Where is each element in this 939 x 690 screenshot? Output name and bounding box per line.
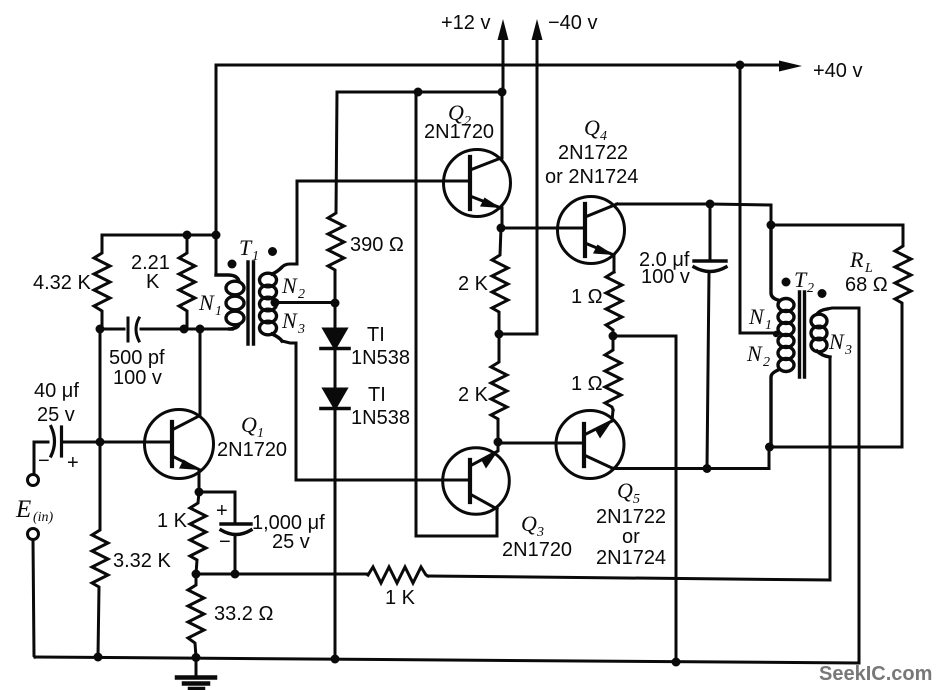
diode D2 TI 1N538 — [321, 389, 349, 659]
svg-text:1N538: 1N538 — [351, 347, 410, 369]
T2 core — [800, 292, 805, 377]
resistor 4.32 K — [94, 235, 110, 329]
node emitter resistor bottom — [192, 570, 201, 579]
svg-text:100 v: 100 v — [641, 266, 690, 288]
capacitor 500 pf — [128, 318, 139, 341]
wire rail left drop to resistor top line — [215, 65, 218, 275]
wire feedback line to 1K — [196, 573, 368, 576]
svg-text:(in): (in) — [33, 510, 54, 525]
wire 390 ohm top run y92 — [337, 91, 502, 94]
wire -40v to 2K junction — [499, 333, 537, 336]
node +40v rail junction — [736, 61, 745, 70]
label N1 — [198, 290, 222, 319]
svg-text:2N1720: 2N1720 — [424, 121, 494, 143]
wire Q5 emitter run — [612, 447, 769, 469]
power arrow -40v — [532, 19, 543, 334]
wire T1 N1 top lead — [216, 275, 239, 281]
wire Q2 emitter down — [501, 208, 502, 228]
T2 phase dot left — [782, 278, 791, 287]
svg-text:or: or — [622, 526, 640, 548]
T1 core — [248, 262, 254, 344]
node Q1 emitter / 1000uf — [195, 488, 204, 497]
label RL — [849, 247, 873, 276]
wire top resistor pair line y235 — [102, 234, 216, 237]
svg-text:1 Ω: 1 Ω — [571, 286, 603, 308]
svg-text:3.32 K: 3.32 K — [113, 550, 171, 572]
label Q3 — [521, 511, 544, 540]
wire Q2 emitter to Q4 base — [501, 227, 585, 230]
wire Q4 emitter down — [613, 255, 616, 272]
wire T1 N1 bottom lead — [228, 325, 239, 329]
node 1 ohm junction — [609, 332, 618, 341]
terminal Ein bottom — [28, 529, 39, 540]
svg-text:TI: TI — [368, 384, 386, 406]
power arrow +40v — [740, 61, 802, 72]
wire Q1 emitter down — [199, 470, 200, 492]
svg-text:2 K: 2 K — [458, 384, 489, 406]
wire RL bottom to T2 node — [770, 446, 903, 449]
svg-text:N: N — [281, 273, 298, 298]
svg-text:40 μf: 40 μf — [34, 380, 79, 402]
node T2 bottom / RL bottom — [765, 443, 774, 452]
svg-text:2N1722: 2N1722 — [558, 142, 628, 164]
svg-text:2N1720: 2N1720 — [217, 439, 287, 461]
svg-text:2N1722: 2N1722 — [596, 506, 666, 528]
node Q3 collector / Q5 base — [494, 438, 503, 447]
wire T1 N2 top to Q2 base — [281, 181, 470, 268]
resistor 2K lower — [491, 334, 507, 442]
svg-text:+: + — [67, 452, 79, 474]
svg-text:5: 5 — [633, 492, 640, 507]
label N1 (T2) — [748, 304, 772, 333]
winding T2 N3 — [817, 309, 827, 314]
svg-text:68 Ω: 68 Ω — [845, 274, 888, 296]
svg-text:390 Ω: 390 Ω — [350, 234, 404, 256]
svg-text:E: E — [15, 496, 31, 523]
label N2 (T2) — [746, 341, 770, 370]
label T2 — [794, 267, 814, 296]
node 1000uf bottom — [231, 570, 240, 579]
wire bottom RC line y329 right — [141, 328, 232, 331]
svg-text:N: N — [828, 329, 845, 354]
label Ein — [15, 496, 54, 525]
T1 phase dot right — [268, 247, 277, 256]
node y92 Q3 drop — [414, 88, 423, 97]
svg-text:−: − — [219, 531, 231, 553]
svg-text:N: N — [198, 290, 215, 315]
svg-text:+: + — [216, 500, 228, 522]
node Q1 collector junction — [196, 325, 205, 334]
wire x100 vertical RC bottom to base node — [99, 329, 102, 442]
label Q1 — [241, 412, 264, 441]
svg-text:N: N — [746, 341, 763, 366]
winding N3 — [260, 309, 277, 323]
svg-text:33.2 Ω: 33.2 Ω — [214, 603, 273, 625]
resistor 2.21 K — [179, 235, 195, 329]
label Q5 — [617, 478, 640, 507]
svg-text:3: 3 — [536, 525, 544, 540]
capacitor 2.0 uf — [694, 204, 726, 469]
svg-text:1: 1 — [765, 318, 772, 333]
wire Q3 lower lead to y92 node — [416, 92, 497, 536]
node top line / T1 branch — [212, 231, 221, 240]
wire T1 N3 bottom to Q3 base — [282, 341, 470, 480]
wire T2 primary top lead — [771, 225, 778, 300]
wire T2 N3 top to ground rail — [827, 308, 859, 663]
wire emitter node to 1000uf top — [199, 492, 235, 524]
power arrow +12v — [498, 19, 509, 92]
node T1 center tap — [271, 298, 280, 307]
svg-text:TI: TI — [367, 324, 385, 346]
capacitor 40 uf — [34, 427, 100, 473]
svg-text:K: K — [146, 271, 160, 293]
node 2.0uf bottom on emitter run — [703, 464, 712, 473]
svg-text:−40 v: −40 v — [548, 12, 597, 34]
node RC bottom left — [96, 325, 105, 334]
label T1 — [239, 235, 259, 264]
svg-text:500 pf: 500 pf — [109, 347, 165, 369]
svg-text:+40 v: +40 v — [813, 60, 862, 82]
svg-text:or 2N1724: or 2N1724 — [545, 166, 638, 188]
wire bottom RC line y329 left — [100, 328, 124, 331]
svg-text:25 v: 25 v — [272, 531, 310, 553]
resistor 3.32 K — [92, 442, 108, 656]
wire T2 primary bottom lead — [771, 370, 778, 447]
wire RL top — [771, 224, 903, 227]
svg-text:3: 3 — [297, 322, 305, 337]
svg-text:1: 1 — [252, 249, 259, 264]
svg-text:2 K: 2 K — [458, 273, 489, 295]
svg-text:2: 2 — [298, 287, 305, 302]
node Q2 emitter / Q4 base — [497, 224, 506, 233]
node y92 Q2 collector — [498, 88, 507, 97]
node rail 33.2 ohm — [192, 653, 201, 662]
capacitor 1000 uf — [221, 524, 251, 574]
svg-text:T: T — [239, 235, 253, 260]
resistor 1 ohm lower — [605, 336, 621, 410]
node 2.21K bottom — [180, 325, 189, 334]
svg-text:−: − — [38, 450, 50, 472]
terminal Ein top — [28, 475, 39, 486]
node 390 ohm bottom diode top — [331, 299, 340, 308]
transformer T1 — [216, 262, 282, 344]
svg-text:N: N — [281, 308, 298, 333]
resistor 1 K (emitter) — [190, 492, 206, 574]
node rail 3.32K — [94, 653, 103, 662]
wire Ein bottom to ground rail — [33, 540, 35, 657]
wire Q2 collector up — [501, 92, 502, 158]
wire Q5 base from node — [498, 442, 584, 443]
svg-text:N: N — [748, 304, 765, 329]
wire +40v drop to T2 center tap — [740, 65, 779, 333]
svg-text:1 K: 1 K — [385, 587, 416, 609]
resistor 1 K (feedback) — [368, 567, 428, 583]
node T2 top / RL — [767, 221, 776, 230]
label Q2 — [448, 100, 471, 129]
svg-text:1: 1 — [215, 304, 222, 319]
transistor Q3 — [443, 442, 510, 514]
svg-text:Q: Q — [617, 478, 633, 503]
svg-text:T: T — [794, 267, 808, 292]
svg-text:2N1720: 2N1720 — [502, 539, 572, 561]
transistor Q5 — [556, 410, 624, 479]
resistor RL 68 ohm — [895, 225, 911, 447]
wire T2 N3 bottom to feedback line — [829, 357, 832, 580]
svg-text:Q: Q — [241, 412, 257, 437]
T1 phase dot left — [228, 260, 237, 269]
label N2 — [281, 273, 305, 302]
transistor Q2 — [444, 150, 511, 217]
svg-text:1 K: 1 K — [157, 510, 188, 532]
wire top rail y65 — [216, 64, 740, 67]
wire Q1 base — [100, 441, 172, 444]
label Q4 — [584, 115, 607, 144]
label N3 (T2) — [828, 329, 852, 358]
wire Q1 collector up — [199, 329, 200, 416]
resistor 390 ohm — [328, 92, 344, 303]
node 2.0uf top — [706, 200, 715, 209]
svg-text:3: 3 — [844, 343, 852, 358]
winding T2 N2 — [778, 335, 794, 348]
svg-text:100 v: 100 v — [113, 367, 162, 389]
svg-text:1N538: 1N538 — [351, 407, 410, 429]
transformer T2 — [771, 225, 830, 447]
wire ground rail — [35, 657, 858, 663]
label N3 — [281, 308, 305, 337]
diode D1 TI 1N538 — [321, 303, 349, 389]
svg-text:+12 v: +12 v — [441, 12, 490, 34]
wire 1 ohm node to ground rail — [613, 336, 676, 662]
svg-text:Q: Q — [584, 115, 600, 140]
wire feedback line right to T2 N3 — [428, 576, 830, 580]
node Q1 base / cap 40uf — [96, 438, 105, 447]
wire Q4 collector run to T2 — [617, 204, 771, 225]
node -40v / 2K junction — [495, 330, 504, 339]
svg-text:2: 2 — [807, 281, 814, 296]
resistor 1 ohm upper — [606, 272, 622, 336]
svg-text:2: 2 — [763, 355, 770, 370]
resistor 2K upper — [492, 228, 508, 334]
winding N1 — [226, 281, 244, 295]
svg-text:Q: Q — [521, 511, 537, 536]
node 2.21K top — [183, 231, 192, 240]
transistor Q1 — [145, 410, 214, 479]
transistor Q4 — [558, 197, 625, 264]
resistor 33.2 ohm — [188, 574, 204, 657]
winding N2 — [272, 268, 281, 274]
wire T1 tap to 390 ohm bottom — [275, 301, 335, 304]
winding T2 N1 — [778, 299, 794, 312]
T2 center tap dot — [773, 331, 779, 337]
svg-text:R: R — [849, 247, 864, 272]
svg-text:2N1724: 2N1724 — [596, 547, 666, 569]
svg-text:1 Ω: 1 Ω — [571, 373, 603, 395]
ground — [177, 658, 215, 690]
node rail diode chain — [331, 655, 340, 664]
T2 phase dot right — [818, 289, 827, 298]
svg-text:4.32 K: 4.32 K — [33, 272, 91, 294]
svg-text:25 v: 25 v — [37, 404, 75, 426]
node rail 1 ohm branch — [672, 658, 681, 667]
svg-text:SeekIC.com: SeekIC.com — [819, 663, 932, 685]
